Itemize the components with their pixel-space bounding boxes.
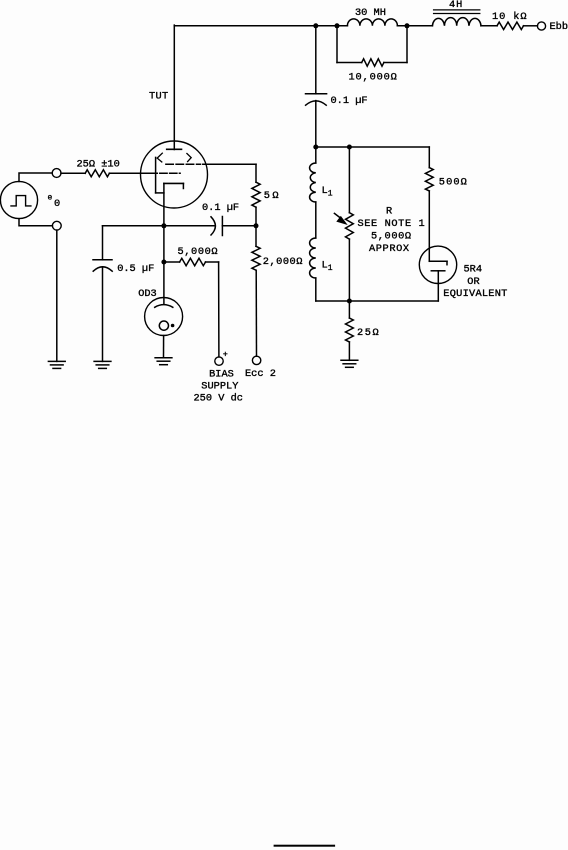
resistor 25 ohm plus-minus 10 xyxy=(85,170,109,177)
wire OD3 to ground xyxy=(163,336,165,358)
svg-text:e: e xyxy=(48,194,53,203)
potentiometer R zigzag xyxy=(346,213,354,239)
junction dot bus at cathode lead xyxy=(161,223,166,228)
svg-text:Ecc 2: Ecc 2 xyxy=(245,368,276,380)
capacitor 0.1uF curved plate xyxy=(211,217,215,235)
wire 5,000 ohm to bias drop xyxy=(206,261,219,263)
svg-text:Ebb: Ebb xyxy=(550,21,568,33)
wire between L1 coils xyxy=(315,202,317,238)
wire junction to 2,000 ohm xyxy=(255,226,257,247)
wire 10k to Ebb terminal xyxy=(524,25,538,27)
terminal bias supply xyxy=(215,357,223,365)
resistor 10 kOhm xyxy=(497,22,524,29)
OD3 starter dot xyxy=(171,324,175,328)
wire potentiometer to bottom bus xyxy=(348,239,350,301)
svg-text:+: + xyxy=(223,349,228,359)
svg-text:0.1 µF: 0.1 µF xyxy=(202,202,239,214)
wire 25 ohm to ground xyxy=(348,342,350,360)
junction dot top bus at R branch xyxy=(347,145,352,150)
resistor 2,000 ohm xyxy=(252,246,260,270)
svg-text:0: 0 xyxy=(54,198,60,210)
resistor 5,000 ohm bias xyxy=(180,258,206,265)
svg-text:25Ω: 25Ω xyxy=(357,327,380,339)
potentiometer arrow tail xyxy=(334,213,341,218)
core line 2 of 4H choke xyxy=(434,13,480,15)
junction dot top bus at L1 branch xyxy=(313,145,318,150)
5R4 anode tick xyxy=(446,261,448,264)
svg-text:TUT: TUT xyxy=(149,91,168,103)
TUT plate bar xyxy=(167,148,182,150)
wire left drop of 10,000 ohm branch xyxy=(336,26,338,63)
wire top bus corner to 500 ohm xyxy=(428,147,430,168)
TUT cathode lead down to bus xyxy=(163,183,165,262)
svg-text:SUPPLY: SUPPLY xyxy=(201,380,238,392)
wire cathode bus left of cap xyxy=(103,225,215,227)
resistor 500 ohm xyxy=(425,168,433,191)
regulator tube OD3 envelope xyxy=(145,298,183,336)
junction dot bus at 2000 ohm branch xyxy=(254,223,259,228)
inductor 30 MH xyxy=(347,19,397,26)
svg-text:OD3: OD3 xyxy=(138,288,157,300)
OD3 anode arc xyxy=(155,305,173,308)
wire plate lead from top rail to TUT xyxy=(173,25,175,149)
wire right network top bus xyxy=(316,146,430,148)
svg-text:L1: L1 xyxy=(322,260,333,274)
terminal input top xyxy=(52,169,61,178)
svg-text:BIAS: BIAS xyxy=(209,369,234,381)
capacitor 0.1uF straight plate xyxy=(221,217,223,236)
svg-text:0.5 µF: 0.5 µF xyxy=(117,263,154,275)
capacitor 0.5uF curved plate xyxy=(93,267,112,271)
inductor 4H iron-core choke xyxy=(432,18,481,26)
svg-text:30 MH: 30 MH xyxy=(355,7,386,19)
wire 0.5uF to ground xyxy=(102,267,104,362)
pulse waveform xyxy=(11,196,31,206)
pulse generator circle xyxy=(0,181,37,218)
wire cathode node to 5,000 ohm xyxy=(164,261,180,263)
wire lower L1 to bottom bus xyxy=(315,278,317,301)
wire top bus to potentiometer R xyxy=(348,147,350,213)
ground below pulse generator xyxy=(48,360,65,362)
svg-text:5Ω: 5Ω xyxy=(264,190,281,202)
wire pulse gen bottom to terminal xyxy=(19,219,52,226)
wire cathode bus right of cap xyxy=(222,225,256,227)
wire 4H to 10k resistor xyxy=(481,25,497,27)
TUT beam rail to cathode lead xyxy=(156,192,164,194)
wire TUT screen to 5 ohm branch xyxy=(203,163,256,165)
svg-text:EQUIVALENT: EQUIVALENT xyxy=(443,288,507,300)
svg-text:OR: OR xyxy=(467,276,479,288)
potentiometer arrow head xyxy=(336,216,347,225)
junction dot bottom bus at 25 ohm xyxy=(347,299,352,304)
wire bottom terminal to ground xyxy=(56,230,58,361)
ground below 25 ohm xyxy=(341,359,358,361)
resistor 5 ohm xyxy=(252,182,260,207)
wire 500 ohm to 5R4 anode xyxy=(428,191,430,261)
capacitor 0.5uF top plate xyxy=(93,259,112,261)
wire bus left end down to 0.5uF xyxy=(102,226,104,260)
wire bottom right of 10,000 ohm branch xyxy=(384,62,407,64)
wire top bus to upper L1 xyxy=(315,147,317,163)
core line 1 of 4H choke xyxy=(434,9,480,11)
tube TUT envelope xyxy=(141,141,208,208)
ground below 0.5uF xyxy=(94,360,111,362)
inductor L1 lower xyxy=(310,238,316,278)
inductor L1 upper xyxy=(310,163,316,202)
OD3 inner circle xyxy=(159,321,168,330)
TUT control grid dashed xyxy=(150,172,180,174)
wire top rail left segment xyxy=(174,25,347,27)
terminal Ecc 2 xyxy=(252,356,260,364)
svg-text:4H: 4H xyxy=(449,0,463,11)
svg-text:SEE NOTE 1: SEE NOTE 1 xyxy=(358,218,426,230)
wire bottom left of 10,000 ohm branch xyxy=(337,62,362,64)
resistor 25 ohm xyxy=(346,318,354,342)
terminal input bottom xyxy=(52,221,61,230)
wire 25 ohm resistor to TUT grid xyxy=(109,172,155,174)
svg-text:25Ω ±10: 25Ω ±10 xyxy=(77,158,120,170)
wire pulse gen top to terminal xyxy=(19,173,52,182)
wire 0.1uF cap to L1 network bus xyxy=(315,101,317,147)
wire top rail to 0.1uF cap xyxy=(315,26,317,94)
5R4 cathode lead to bottom bus xyxy=(437,271,439,301)
svg-text:R: R xyxy=(386,206,392,218)
svg-text:250 V dc: 250 V dc xyxy=(194,392,243,404)
wire top rail between 30MH and 4H choke xyxy=(397,25,432,27)
svg-text:5R4: 5R4 xyxy=(464,264,483,276)
wire corner down to 5 ohm xyxy=(255,164,257,182)
svg-text:10 kΩ: 10 kΩ xyxy=(492,11,527,23)
wire right drop of 10,000 ohm branch xyxy=(406,26,408,63)
wire terminal to 25 ohm input resistor xyxy=(61,172,85,174)
svg-text:L1: L1 xyxy=(322,185,333,199)
terminal Ebb xyxy=(537,22,545,30)
wire bias drop to terminal xyxy=(218,262,220,357)
5R4 anode horizontal xyxy=(429,260,447,262)
junction dot top rail at 30MH left xyxy=(335,23,340,28)
junction dot top rail at plate-cap branch xyxy=(313,23,318,28)
wire 2,000 ohm to Ecc terminal xyxy=(255,270,257,356)
TUT cathode tick xyxy=(182,183,184,188)
svg-text:5,000Ω: 5,000Ω xyxy=(371,231,412,243)
ground below OD3 xyxy=(155,357,172,359)
capacitor C 0.1uF top plate xyxy=(306,93,327,95)
svg-text:2,000Ω: 2,000Ω xyxy=(263,256,303,268)
junction dot cathode at 5,000 ohm xyxy=(161,260,166,265)
page footer rule xyxy=(274,845,336,847)
TUT cathode bar xyxy=(164,182,184,184)
wire bottom bus to 25 ohm resistor xyxy=(348,301,350,318)
wire 5 ohm to bus junction xyxy=(255,207,257,226)
svg-text:APPROX: APPROX xyxy=(369,243,410,255)
wire OD3 top lead into envelope xyxy=(163,262,165,304)
TUT beam plate left chevron xyxy=(157,153,162,162)
TUT screen grid dashed xyxy=(166,163,201,165)
resistor 10,000 ohm xyxy=(362,59,384,66)
capacitor C 0.1uF curved plate xyxy=(306,101,327,105)
svg-text:0.1 µF: 0.1 µF xyxy=(331,95,368,107)
svg-text:500Ω: 500Ω xyxy=(439,176,468,188)
rectifier tube 5R4 envelope xyxy=(419,246,456,283)
svg-text:10,000Ω: 10,000Ω xyxy=(349,72,398,84)
5R4 cathode bar xyxy=(431,270,445,272)
wire right network bottom bus xyxy=(316,300,439,302)
svg-text:5,000Ω: 5,000Ω xyxy=(178,246,219,258)
TUT beam rail vertical xyxy=(155,157,157,193)
junction dot top rail at 30MH right xyxy=(405,23,410,28)
TUT beam plate right chevron xyxy=(187,154,191,162)
